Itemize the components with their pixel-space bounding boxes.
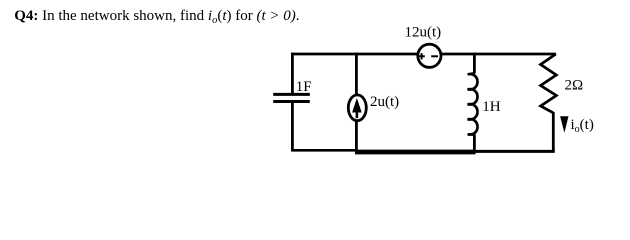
wire: bottom rail left segment — [291, 149, 357, 152]
svg-text:12u(t): 12u(t) — [405, 25, 442, 41]
wire: left branch lower — [291, 102, 294, 152]
current source IS 2u(t) — [348, 53, 366, 153]
wire: inductor branch lower — [473, 134, 476, 151]
inductor coil humps — [468, 73, 478, 134]
wire: bottom rail right segment — [474, 150, 555, 153]
svg-text:1F: 1F — [296, 79, 312, 95]
wire: left branch upper — [291, 53, 294, 95]
wire: current source branch lower — [355, 120, 358, 153]
wire: top rail right segment (voltage source to top-right corner) — [442, 53, 556, 56]
wire: bottom rail middle thick segment — [355, 150, 476, 155]
wire: current source branch upper — [355, 53, 358, 95]
arrow up inside source — [356, 106, 359, 118]
inductor L 1H — [468, 53, 478, 152]
capacitor C 1F — [273, 53, 310, 152]
capacitor top plate — [273, 93, 310, 96]
svg-text:1H: 1H — [482, 99, 501, 115]
wire: resistor branch lower — [552, 112, 555, 153]
wire: inductor branch upper — [473, 53, 476, 74]
svg-text:2Ω: 2Ω — [565, 77, 584, 93]
current arrow io(t) pointing down — [560, 116, 568, 133]
capacitor bottom plate — [273, 100, 310, 103]
svg-text:Q4: In the network shown, find: Q4: In the network shown, find io(t) for… — [14, 8, 299, 26]
wire: top rail left segment (node A to voltage source) — [291, 53, 417, 56]
svg-text:io(t): io(t) — [571, 117, 594, 135]
svg-text:2u(t): 2u(t) — [370, 94, 399, 110]
resistor R 2ohm — [541, 54, 557, 153]
voltage source VS 12u(t) — [418, 44, 441, 67]
